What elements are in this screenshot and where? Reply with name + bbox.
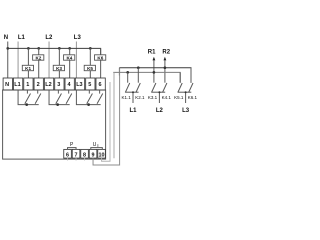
lower bus R1 <box>113 72 180 82</box>
terminal 6 <box>96 78 105 90</box>
junction dot rail 2 <box>56 103 59 106</box>
wire bus to K2 to terminal 2 <box>38 48 40 78</box>
junction dot bus-N <box>6 47 9 50</box>
contact K1.1 fixed wire <box>127 72 129 82</box>
contact group 3 common wire and rail <box>76 90 100 105</box>
svg-text:K6: K6 <box>97 55 103 60</box>
junction dot bus-K2 <box>37 47 40 50</box>
contact blade (x=90.32) <box>87 94 93 104</box>
tick below bottom terminal 8 <box>84 158 86 160</box>
wire bus to K5 to terminal 5 <box>89 48 91 78</box>
wire terminal 9 to upper bus (around outside) <box>118 68 120 76</box>
contact K1.1 blade <box>125 83 129 93</box>
svg-text:L3: L3 <box>182 108 190 114</box>
P input bracket <box>68 148 77 150</box>
svg-text:K5: K5 <box>87 66 93 71</box>
terminal N <box>3 78 12 90</box>
svg-text:7: 7 <box>75 152 78 158</box>
terminal L2 <box>44 78 53 90</box>
wire bus to K6 to terminal 6 <box>100 48 102 78</box>
common rail group L2 <box>152 91 166 93</box>
common rail group L1 <box>125 91 138 93</box>
contact K3.1 blade <box>152 83 156 93</box>
svg-text:L2: L2 <box>45 82 51 88</box>
contact K2.1 blade <box>136 83 140 93</box>
svg-text:6: 6 <box>99 82 102 88</box>
svg-text:9: 9 <box>92 152 95 158</box>
contact K4.1 blade <box>163 83 167 93</box>
terminal 1 <box>24 78 33 90</box>
junction dot upper bus g1 <box>137 66 140 69</box>
svg-text:K1: K1 <box>25 66 31 71</box>
drop to L3 <box>185 92 187 103</box>
svg-text:R1: R1 <box>148 50 156 56</box>
bottom terminal 9 <box>89 149 97 158</box>
svg-text:N: N <box>4 35 8 41</box>
bottom terminal 7 <box>72 149 80 158</box>
svg-text:P: P <box>70 142 74 148</box>
contact blade (x=100.64) <box>97 94 103 104</box>
relay coil K1 <box>22 65 33 70</box>
terminal 4 <box>65 78 74 90</box>
svg-text:K2.1: K2.1 <box>135 95 145 100</box>
contact K6.1 blade <box>189 83 193 93</box>
svg-text:L1: L1 <box>129 108 137 114</box>
svg-text:K1.1: K1.1 <box>122 95 132 100</box>
svg-text:3: 3 <box>57 82 60 88</box>
junction dot bus-K5 <box>89 47 92 50</box>
bottom terminal 10 <box>98 149 106 158</box>
neutral bus wire <box>8 48 101 54</box>
junction dot lower bus g1 <box>126 71 129 74</box>
bottom terminal 6 <box>64 149 72 158</box>
svg-text:K3.1: K3.1 <box>148 95 158 100</box>
common rail group L3 <box>178 91 192 93</box>
wire N supply <box>7 42 9 79</box>
junction dot rail 3 <box>87 103 90 106</box>
contact stub terminal (x=90.32) <box>88 90 90 94</box>
svg-text:L1: L1 <box>18 35 26 41</box>
contact stub terminal (x=28.4) <box>26 90 28 94</box>
svg-text:L3: L3 <box>76 82 82 88</box>
svg-text:s: s <box>97 144 99 148</box>
junction dot rail 1 <box>25 103 28 106</box>
relay coil K4 <box>64 55 75 60</box>
Us input bracket <box>91 148 103 150</box>
drop to L1 <box>132 92 134 103</box>
svg-text:K6.1: K6.1 <box>188 95 198 100</box>
svg-text:K2: K2 <box>35 55 41 60</box>
svg-text:K3: K3 <box>56 66 62 71</box>
wire bus to K1 to terminal 1 <box>27 48 29 78</box>
svg-text:R2: R2 <box>162 50 170 56</box>
contact blade (x=28.4) <box>25 94 31 104</box>
svg-text:4: 4 <box>68 82 72 88</box>
drop to L2 <box>158 92 160 103</box>
contact K2.1 fixed wire <box>137 68 139 83</box>
arrow R1 <box>153 60 155 82</box>
relay coil K5 <box>84 65 95 70</box>
contact stub terminal (x=100.64) <box>99 90 101 94</box>
contact blade (x=59.36) <box>56 94 62 104</box>
contact blade (x=38.72) <box>35 94 41 104</box>
junction dot bus-K3 <box>58 47 61 50</box>
svg-text:6: 6 <box>66 152 69 158</box>
svg-text:L2: L2 <box>156 108 164 114</box>
contact group 1 common wire and rail <box>18 90 39 105</box>
svg-text:8: 8 <box>83 152 86 158</box>
bottom terminal 8 <box>81 149 89 158</box>
contact K5.1 fixed wire <box>179 72 181 82</box>
contact blade (x=69.68) <box>66 94 72 104</box>
junction dot bus-K4 <box>68 47 71 50</box>
relay coil K2 <box>33 55 44 60</box>
svg-text:2: 2 <box>37 82 40 88</box>
terminal 5 <box>86 78 95 90</box>
lower bus drop to box corner <box>113 72 115 158</box>
contact group 2 common wire and rail <box>49 90 70 105</box>
wire L2 supply <box>48 42 50 79</box>
terminal 3 <box>55 78 64 90</box>
svg-text:1: 1 <box>26 82 29 88</box>
wire L1 supply <box>17 42 19 79</box>
svg-text:N: N <box>5 82 9 88</box>
junction dot upper bus R2 <box>164 66 167 69</box>
tick below bottom terminal 6 <box>67 158 69 160</box>
contact stub terminal (x=59.36) <box>57 90 59 94</box>
upper bus R2 <box>119 68 191 83</box>
wire bus to K4 to terminal 4 <box>69 48 71 78</box>
svg-text:K4: K4 <box>66 55 72 60</box>
contact K6.1 fixed wire <box>190 68 192 83</box>
terminal L3 <box>75 78 84 90</box>
relay coil K3 <box>53 65 64 70</box>
contact stub terminal (x=69.68) <box>68 90 70 94</box>
junction dot bus-K1 <box>27 47 30 50</box>
svg-text:L3: L3 <box>74 35 82 41</box>
terminal L1 <box>13 78 22 90</box>
contact K5.1 blade <box>178 83 182 93</box>
wire bus to K3 to terminal 3 <box>58 48 60 78</box>
tick below bottom terminal 7 <box>75 158 77 160</box>
wire terminal 10 hook <box>102 82 110 161</box>
contact stub terminal (x=38.72) <box>37 90 39 94</box>
svg-text:K4.1: K4.1 <box>162 95 172 100</box>
terminal 2 <box>34 78 43 90</box>
device outline box <box>3 90 106 159</box>
svg-text:5: 5 <box>88 82 91 88</box>
svg-text:L2: L2 <box>45 35 53 41</box>
svg-text:K5.1: K5.1 <box>174 95 184 100</box>
svg-text:10: 10 <box>99 152 105 158</box>
svg-text:L1: L1 <box>14 82 20 88</box>
junction dot lower bus R1 <box>153 71 156 74</box>
relay coil K6 <box>95 55 106 60</box>
arrow R2 <box>164 60 166 82</box>
wire L3 supply <box>75 42 77 79</box>
